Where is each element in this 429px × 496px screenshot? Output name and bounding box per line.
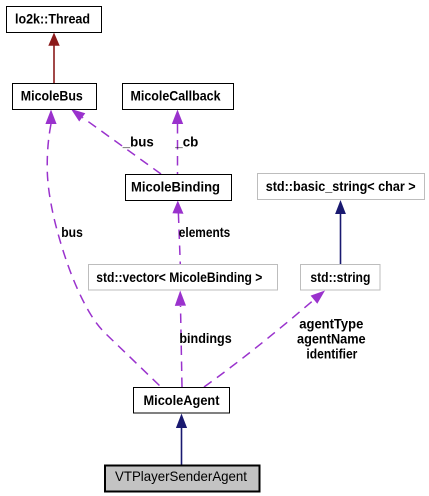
svg-text:std::string: std::string [310,269,370,285]
svg-text:bus: bus [61,224,83,240]
node lo2k::Thread [7,7,102,33]
node MicoleBinding [126,175,232,201]
node VTPlayerSenderAgent (current class, gray fill) [105,465,260,491]
svg-text:MicoleCallback: MicoleCallback [131,88,221,104]
svg-text:elements: elements [179,224,231,240]
edge: MicoleAgent -> std::vector< MicoleBinding > (usage bindings, dashed purple) [175,291,186,388]
edge: std::string -> std::basic_string< char > (public inheritance, solid dark blue) [335,200,346,265]
svg-text:std::basic_string< char >: std::basic_string< char > [266,178,416,194]
edge: std::vector< MicoleBinding > -> MicoleBinding (usage elements, dashed purple) [172,201,183,265]
svg-text:lo2k::Thread: lo2k::Thread [15,11,90,27]
svg-text:MicoleBinding: MicoleBinding [131,179,220,195]
svg-text:agentType: agentType [299,316,363,332]
svg-text:agentName: agentName [297,331,366,347]
svg-text:_bus: _bus [122,134,154,150]
edge: MicoleAgent -> MicoleBus (usage bus, long dashed purple spline) [45,110,161,388]
node std::string [301,265,381,291]
edge: MicoleBus -> lo2k::Thread (private inheritance, solid dark red) [48,33,59,84]
edge: MicoleBinding -> MicoleBus (usage _bus, dashed purple) [71,109,161,174]
svg-text:MicoleAgent: MicoleAgent [144,392,220,408]
edge: MicoleBinding -> MicoleCallback (usage _cb, dashed purple) [172,110,183,175]
node std::vector< MicoleBinding > [89,265,278,291]
svg-text:bindings: bindings [179,330,231,346]
svg-text:std::vector< MicoleBinding >: std::vector< MicoleBinding > [96,269,262,285]
svg-text:VTPlayerSenderAgent: VTPlayerSenderAgent [115,468,247,484]
edge: MicoleAgent -> std::string (usage agentType/agentName/identifier, dashed purple) [204,291,325,388]
svg-text:identifier: identifier [306,346,357,362]
svg-text:_cb: _cb [174,134,198,150]
node std::basic_string< char > [258,174,425,200]
node MicoleAgent [134,388,230,414]
edge: VTPlayerSenderAgent -> MicoleAgent (public inheritance, solid dark blue) [176,414,187,465]
svg-text:MicoleBus: MicoleBus [21,88,83,104]
node MicoleBus [13,84,97,110]
node MicoleCallback [123,84,234,110]
